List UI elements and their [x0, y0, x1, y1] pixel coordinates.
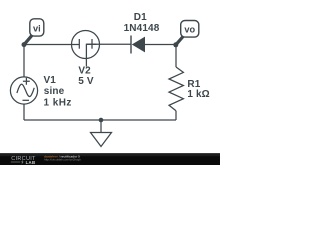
watermark bar: [0, 153, 220, 165]
wire: [86, 43, 131, 45]
svg-text:5 V: 5 V: [78, 76, 94, 87]
ground junction: [99, 118, 104, 123]
wire: [145, 44, 176, 46]
node vo flag: [176, 21, 199, 45]
svg-text:V1: V1: [44, 75, 57, 86]
svg-text:1 kHz: 1 kHz: [44, 97, 72, 108]
svg-text:1 kΩ: 1 kΩ: [187, 89, 209, 100]
svg-text:V2: V2: [78, 65, 91, 76]
svg-text:D1: D1: [134, 12, 147, 23]
node vo junction: [173, 42, 178, 47]
resistor R1: [169, 67, 183, 111]
svg-text:sine: sine: [44, 86, 65, 97]
voltage source V2: [72, 31, 100, 67]
node vi junction: [22, 42, 27, 47]
wire: [23, 104, 25, 120]
wire: [24, 119, 176, 121]
svg-text:1N4148: 1N4148: [124, 23, 160, 34]
svg-text:LAB: LAB: [26, 160, 36, 165]
svg-text:vo: vo: [184, 25, 195, 35]
wire: [24, 44, 79, 46]
wire: [23, 45, 25, 78]
svg-text:vi: vi: [33, 23, 41, 33]
svg-text:http://circuitlab.com/ce2hzgb: http://circuitlab.com/ce2hzgb: [44, 158, 81, 162]
node vi flag: [24, 19, 44, 45]
diode D1: [131, 36, 145, 54]
wire: [175, 45, 177, 68]
voltage source V1: [10, 77, 37, 104]
wire: [175, 111, 177, 120]
wire: [100, 120, 102, 133]
ground: [91, 133, 112, 147]
